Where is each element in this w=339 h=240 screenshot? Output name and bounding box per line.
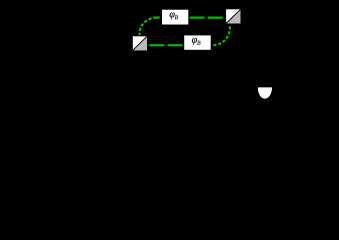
wire bottom-right corner arc dashed green — [213, 26, 230, 45]
phase shifter box φB bottom — [184, 35, 212, 50]
phase shifter box φB top — [162, 9, 189, 25]
beam splitter BS2 — [226, 9, 241, 24]
wire bottom arm dashed green — [149, 44, 185, 46]
beam splitter BS1 — [132, 36, 147, 51]
wire top-left corner arc dashed green — [140, 18, 157, 36]
detector half-dome — [258, 87, 272, 98]
wire top arm dashed green — [153, 17, 226, 19]
